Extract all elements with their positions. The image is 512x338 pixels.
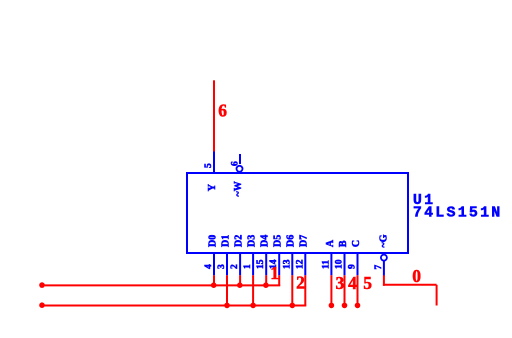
svg-text:11: 11 [321, 260, 331, 269]
svg-text:12: 12 [295, 259, 305, 269]
svg-text:D1: D1 [220, 235, 231, 247]
svg-text:D3: D3 [246, 235, 257, 247]
svg-text:D6: D6 [286, 235, 297, 247]
svg-text:D7: D7 [299, 235, 310, 247]
svg-text:Y: Y [207, 183, 218, 191]
svg-text:6: 6 [231, 161, 241, 166]
svg-text:A: A [325, 239, 336, 247]
svg-text:4: 4 [204, 264, 214, 269]
svg-text:15: 15 [256, 259, 266, 269]
svg-text:2: 2 [230, 264, 240, 269]
svg-text:9: 9 [348, 264, 358, 269]
svg-text:10: 10 [335, 259, 345, 269]
svg-text:4: 4 [348, 273, 357, 293]
svg-text:0: 0 [412, 266, 421, 286]
svg-text:3: 3 [336, 273, 345, 293]
svg-text:~W: ~W [233, 181, 244, 196]
svg-text:13: 13 [282, 259, 292, 269]
svg-text:1: 1 [270, 263, 279, 283]
svg-text:2: 2 [296, 272, 305, 292]
svg-text:D0: D0 [207, 235, 218, 247]
svg-text:D2: D2 [233, 235, 244, 247]
svg-text:5: 5 [363, 273, 372, 293]
svg-text:1: 1 [243, 264, 253, 269]
svg-text:74LS151N: 74LS151N [413, 205, 503, 222]
svg-text:3: 3 [217, 264, 227, 269]
svg-text:D5: D5 [273, 235, 284, 247]
svg-text:5: 5 [204, 163, 214, 168]
svg-text:6: 6 [218, 101, 227, 121]
svg-text:~G: ~G [378, 234, 389, 247]
svg-text:7: 7 [374, 265, 384, 270]
svg-text:B: B [338, 240, 349, 247]
svg-text:C: C [351, 240, 362, 247]
svg-text:D4: D4 [260, 235, 271, 247]
